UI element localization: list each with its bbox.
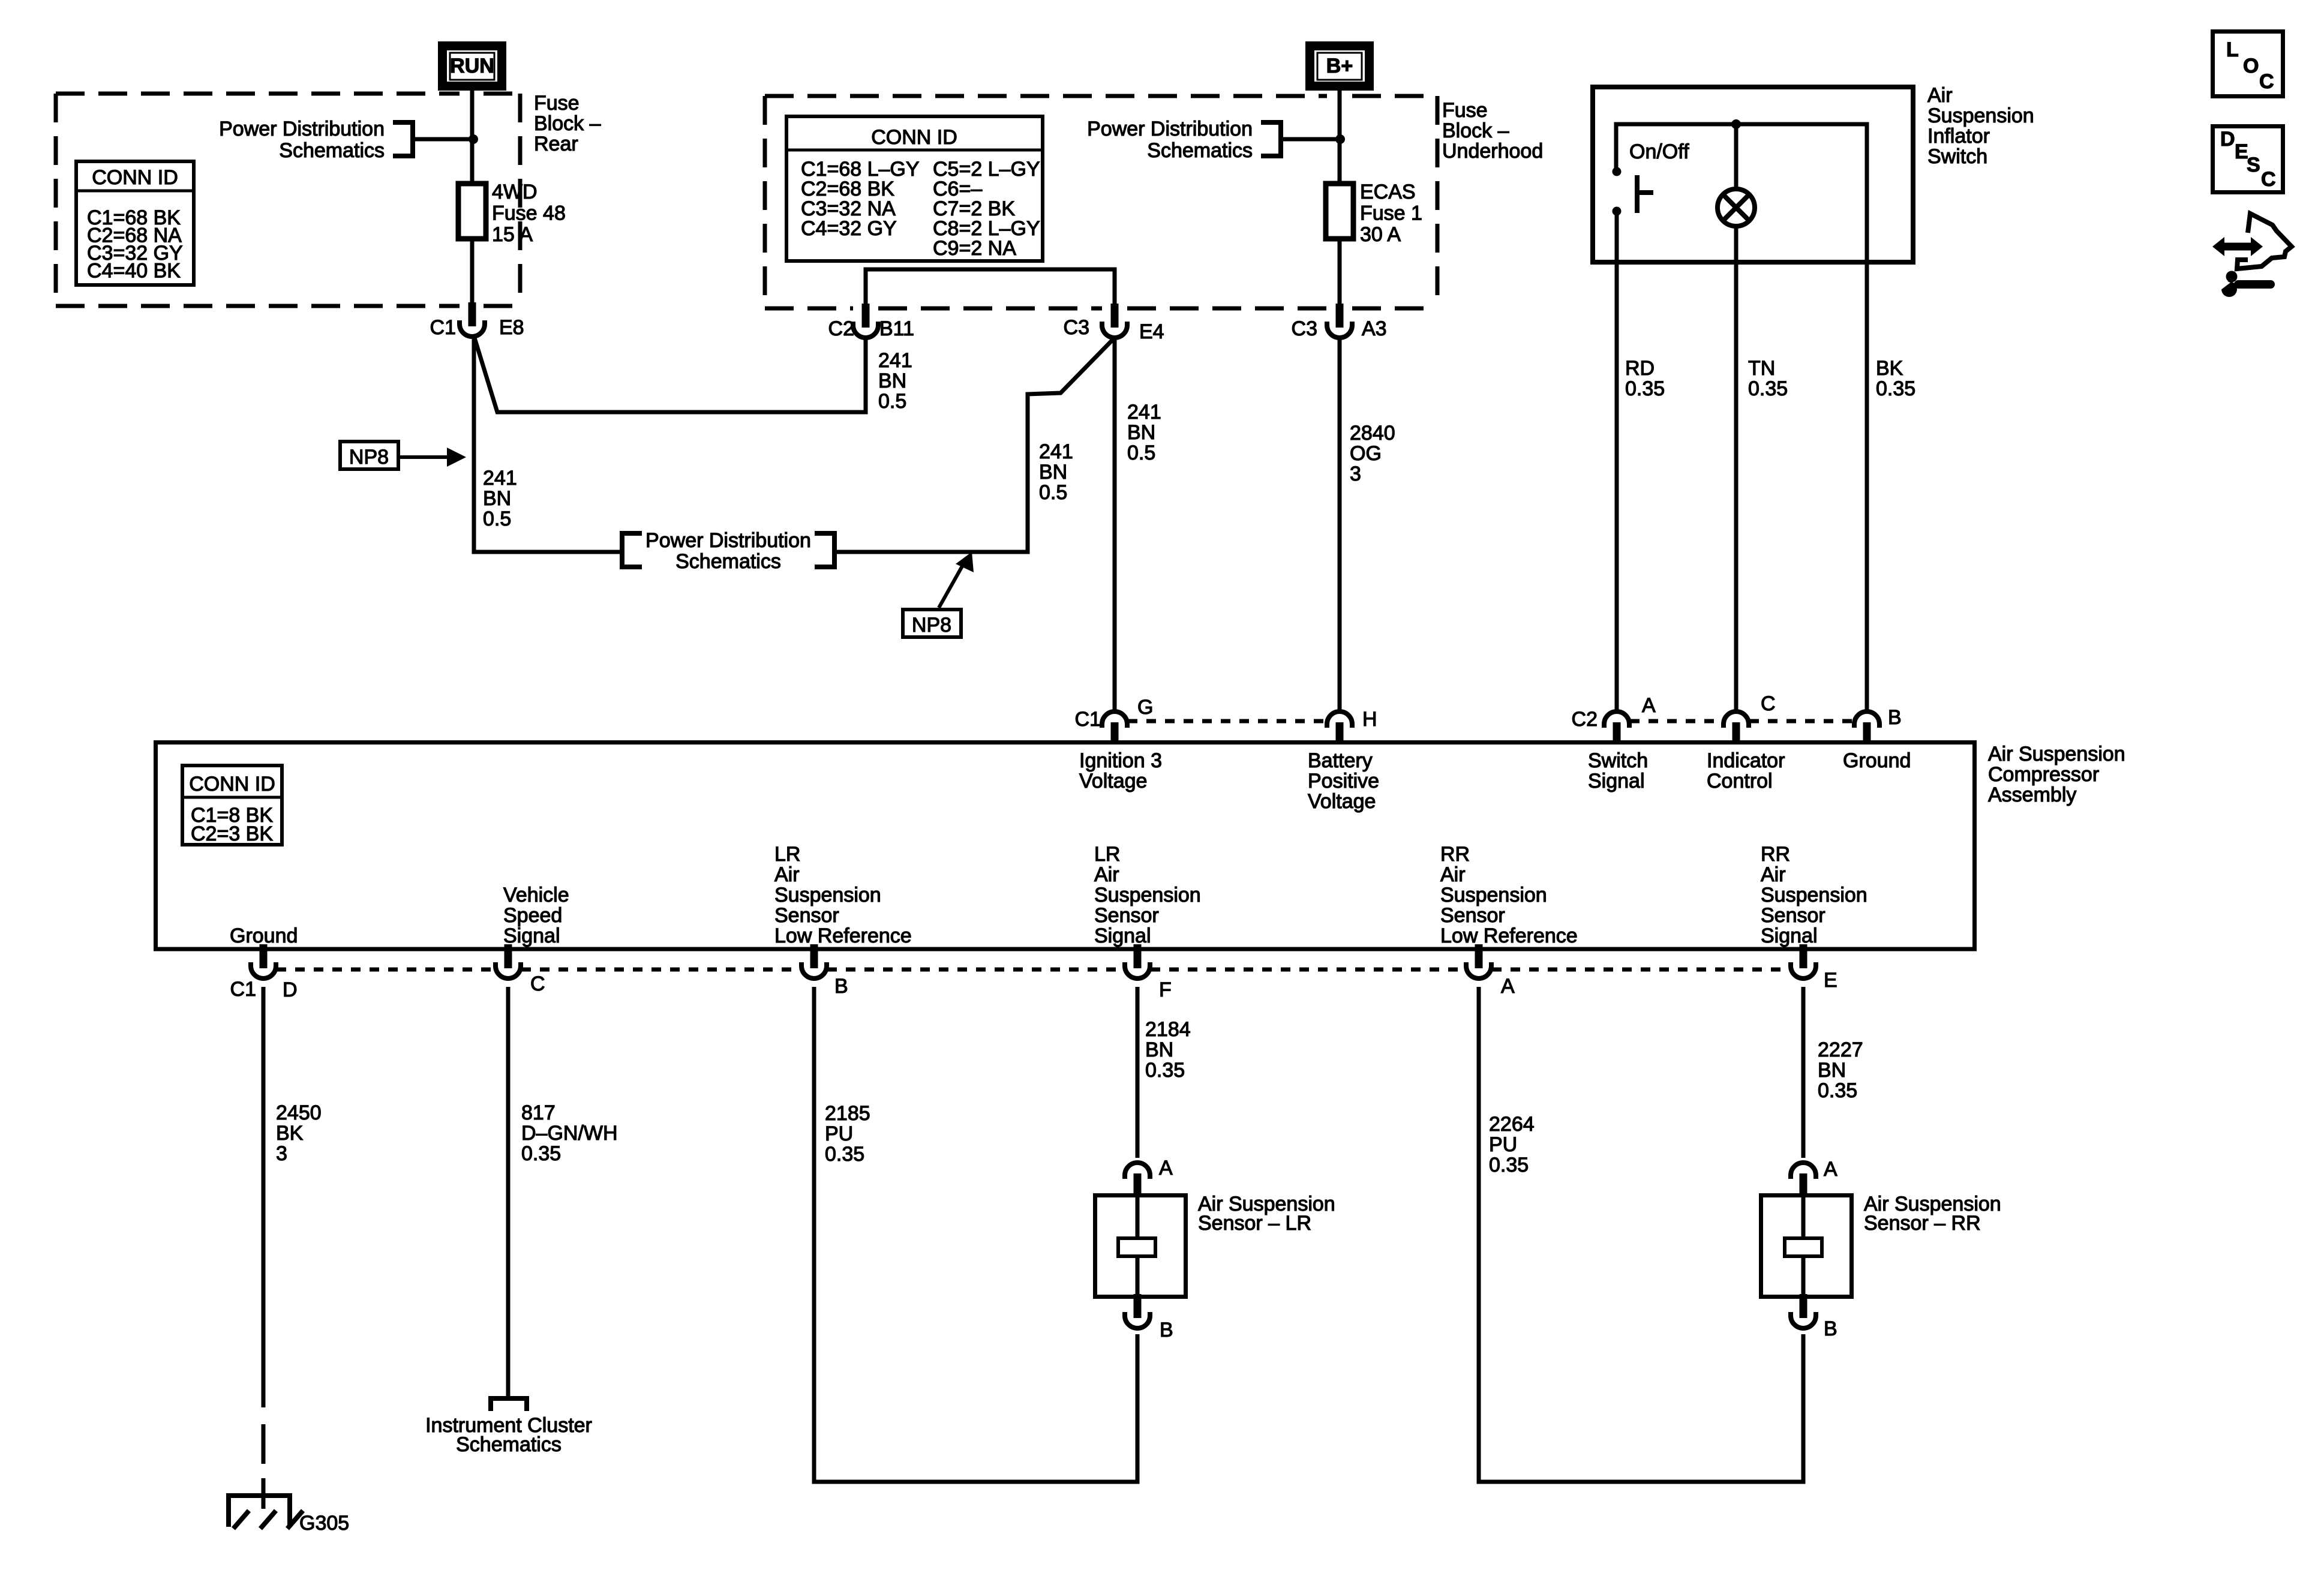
label D bbox=[283, 978, 298, 1001]
svg-text:B: B bbox=[1888, 706, 1902, 729]
svg-text:BN: BN bbox=[1818, 1059, 1846, 1082]
wire lamp to box bottom bbox=[1734, 124, 1739, 265]
svg-text:On/Off: On/Off bbox=[1629, 140, 1689, 163]
svg-text:0.35: 0.35 bbox=[1489, 1154, 1529, 1176]
label G305 bbox=[299, 1512, 349, 1535]
svg-text:H: H bbox=[1362, 708, 1377, 731]
svg-text:RR: RR bbox=[1440, 843, 1470, 866]
svg-text:Control: Control bbox=[1707, 770, 1773, 792]
wrench icon bbox=[2215, 271, 2275, 298]
switch lever bbox=[1637, 175, 1653, 213]
label 2450 BK 3 bbox=[276, 1101, 322, 1165]
svg-text:0.35: 0.35 bbox=[521, 1142, 561, 1165]
svg-text:B11: B11 bbox=[879, 317, 914, 340]
svg-text:Sensor – RR: Sensor – RR bbox=[1864, 1212, 1981, 1235]
label On/Off bbox=[1629, 140, 1689, 163]
svg-text:Voltage: Voltage bbox=[1308, 790, 1376, 813]
svg-text:ECAS: ECAS bbox=[1360, 181, 1416, 203]
svg-text:Air Suspension: Air Suspension bbox=[1988, 743, 2125, 766]
label 2185 PU 0.35 bbox=[825, 1102, 870, 1166]
label H bbox=[1362, 708, 1377, 731]
CONN ID table (compressor) bbox=[181, 766, 282, 845]
dashed line A to C bbox=[1630, 719, 1723, 724]
svg-text:C9=2 NA: C9=2 NA bbox=[933, 237, 1016, 260]
svg-text:C2: C2 bbox=[1572, 708, 1598, 731]
connector C2/B11 bbox=[853, 304, 878, 338]
label Air Suspension Sensor - LR bbox=[1198, 1193, 1335, 1235]
svg-text:NP8: NP8 bbox=[912, 614, 951, 637]
svg-text:Schematics: Schematics bbox=[279, 139, 385, 162]
label C1 (D) bbox=[230, 978, 256, 1001]
connector C1/E8 bbox=[460, 302, 485, 337]
svg-text:Low Reference: Low Reference bbox=[1440, 924, 1578, 947]
switch internal top wire bbox=[1616, 124, 1867, 265]
CONN ID table (fuse block rear) bbox=[74, 161, 196, 285]
label Indicator Control bbox=[1707, 749, 1785, 792]
svg-text:CONN ID: CONN ID bbox=[871, 126, 957, 149]
dashed line B to F bbox=[827, 968, 1124, 972]
off-page half box (instrument cluster) bbox=[491, 1398, 527, 1411]
label Vehicle Speed Signal bbox=[503, 884, 569, 947]
dashed box Fuse Block - Rear bbox=[56, 94, 520, 306]
svg-text:C: C bbox=[530, 972, 545, 995]
svg-text:BK: BK bbox=[1876, 357, 1903, 380]
svg-text:NP8: NP8 bbox=[349, 446, 389, 469]
label 4WD Fuse 48 15 A bbox=[492, 181, 566, 246]
svg-text:Air: Air bbox=[1927, 84, 1953, 107]
off-page bracket (power distribution, run) bbox=[393, 122, 413, 156]
svg-text:C3: C3 bbox=[1292, 317, 1317, 340]
svg-text:BN: BN bbox=[483, 487, 511, 510]
svg-text:Low Reference: Low Reference bbox=[774, 924, 912, 947]
power symbol RUN box bbox=[443, 46, 502, 86]
pointer outline icon bbox=[2237, 214, 2292, 269]
wire fuse 48 to connector E8 bbox=[470, 239, 475, 307]
svg-text:Suspension: Suspension bbox=[1927, 104, 2034, 127]
svg-text:30 A: 30 A bbox=[1360, 223, 1401, 246]
svg-text:0.35: 0.35 bbox=[1625, 377, 1665, 400]
svg-text:C3: C3 bbox=[1064, 316, 1089, 339]
label 241 BN 0.5 (diagonal) bbox=[1039, 440, 1073, 504]
svg-text:B: B bbox=[1160, 1319, 1173, 1341]
svg-text:C4=40 BK: C4=40 BK bbox=[87, 260, 181, 283]
off-page bracket pair (power distribution schematics, mid) bbox=[622, 533, 834, 567]
svg-text:C2: C2 bbox=[828, 317, 854, 340]
svg-text:0.35: 0.35 bbox=[825, 1143, 864, 1166]
label C2 (A) bbox=[1572, 708, 1598, 731]
svg-text:0.5: 0.5 bbox=[1039, 481, 1067, 504]
connector E (RR signal) bbox=[1791, 944, 1816, 978]
svg-text:PU: PU bbox=[1489, 1133, 1517, 1156]
jumper wire B11 to E4 inside fuse block bbox=[866, 269, 1115, 304]
CONN ID table (fuse block underhood) bbox=[785, 116, 1043, 261]
svg-text:Fuse 48: Fuse 48 bbox=[492, 202, 566, 225]
svg-text:Schematics: Schematics bbox=[675, 550, 781, 573]
svg-text:Schematics: Schematics bbox=[1147, 139, 1253, 162]
svg-text:C2=3 BK: C2=3 BK bbox=[191, 822, 273, 845]
junction dot (lamp feed) bbox=[1731, 119, 1741, 129]
svg-text:817: 817 bbox=[521, 1101, 556, 1124]
svg-text:LR: LR bbox=[1094, 843, 1120, 866]
label Battery Positive Voltage bbox=[1308, 749, 1379, 813]
svg-text:Voltage: Voltage bbox=[1079, 770, 1147, 792]
connector A (RR sensor) bbox=[1791, 1163, 1816, 1195]
connector C3/E4 bbox=[1102, 304, 1127, 338]
svg-text:Power Distribution: Power Distribution bbox=[645, 529, 811, 552]
label RR Air Suspension Sensor Signal bbox=[1761, 843, 1867, 947]
fuse 48 4WD 15A bbox=[458, 184, 486, 239]
svg-text:0.35: 0.35 bbox=[1818, 1079, 1857, 1102]
label A (RR low ref) bbox=[1501, 975, 1515, 998]
svg-text:Signal: Signal bbox=[1761, 924, 1818, 947]
svg-text:2450: 2450 bbox=[276, 1101, 322, 1124]
indicator lamp bbox=[1718, 189, 1755, 226]
label 2227 BN 0.35 bbox=[1818, 1038, 1863, 1102]
svg-text:Sensor: Sensor bbox=[1761, 904, 1825, 927]
svg-text:RR: RR bbox=[1761, 843, 1790, 866]
connector C1/G bbox=[1102, 712, 1127, 744]
double arrow icon bbox=[2212, 237, 2263, 256]
label B (ground) bbox=[1888, 706, 1902, 729]
svg-text:BN: BN bbox=[878, 370, 906, 392]
wire BK 0.35 to compressor B bbox=[1865, 265, 1869, 710]
svg-text:Vehicle: Vehicle bbox=[503, 884, 569, 906]
svg-text:Fuse: Fuse bbox=[1442, 99, 1488, 122]
svg-text:Underhood: Underhood bbox=[1442, 140, 1543, 163]
svg-text:Suspension: Suspension bbox=[774, 884, 881, 906]
svg-text:CONN ID: CONN ID bbox=[92, 166, 178, 189]
svg-text:E8: E8 bbox=[499, 316, 524, 339]
svg-text:C1: C1 bbox=[230, 978, 256, 1001]
dashed box Fuse Block - Underhood bbox=[765, 96, 1437, 308]
connector B (LR sensor) bbox=[1125, 1294, 1150, 1328]
label 241 BN 0.5 (ignition feed) bbox=[1127, 401, 1161, 464]
dashed line D to C bbox=[277, 968, 495, 972]
svg-text:0.35: 0.35 bbox=[1748, 377, 1788, 400]
svg-text:TN: TN bbox=[1748, 357, 1775, 380]
connector F (LR signal) bbox=[1125, 944, 1150, 978]
label A (RR sensor) bbox=[1824, 1158, 1837, 1181]
wire TN 0.35 to compressor C bbox=[1734, 265, 1739, 710]
connector C2/A bbox=[1604, 712, 1629, 744]
svg-text:LR: LR bbox=[774, 843, 800, 866]
label C3 (A3) bbox=[1292, 317, 1317, 340]
svg-text:241: 241 bbox=[1127, 401, 1161, 424]
label Air Suspension Inflator Switch bbox=[1927, 84, 2034, 168]
svg-text:0.35: 0.35 bbox=[1876, 377, 1915, 400]
label E bbox=[1824, 969, 1837, 992]
svg-text:D: D bbox=[2220, 128, 2235, 151]
svg-text:15 A: 15 A bbox=[492, 223, 533, 246]
svg-text:Signal: Signal bbox=[1588, 770, 1645, 792]
label Ground (top) bbox=[1843, 749, 1911, 772]
svg-text:Assembly: Assembly bbox=[1988, 784, 2076, 806]
svg-text:O: O bbox=[2243, 55, 2259, 77]
label C2 (B11) bbox=[828, 317, 854, 340]
NP8 option box 2 bbox=[903, 610, 961, 637]
sensor element LR bbox=[1118, 1194, 1155, 1299]
air suspension sensor LR box bbox=[1095, 1196, 1186, 1297]
svg-text:Fuse: Fuse bbox=[534, 92, 580, 115]
svg-text:E4: E4 bbox=[1139, 320, 1164, 343]
label B11 bbox=[879, 317, 914, 340]
svg-text:Signal: Signal bbox=[503, 924, 560, 947]
label Ground (bottom) bbox=[230, 924, 298, 947]
wire E8 to B11 (241 BN) bbox=[474, 336, 866, 412]
label E4 bbox=[1139, 320, 1164, 343]
wire C vehicle speed (817 D-GN/WH) bbox=[506, 987, 511, 1396]
wire F LR signal (2184 BN) bbox=[1136, 987, 1140, 1158]
fuse ECAS Fuse 1 30A bbox=[1326, 184, 1353, 239]
connector C3/A3 bbox=[1327, 304, 1352, 338]
svg-text:Suspension: Suspension bbox=[1761, 884, 1867, 906]
label Fuse Block - Underhood bbox=[1442, 99, 1543, 163]
svg-text:Schematics: Schematics bbox=[456, 1433, 562, 1456]
svg-text:Indicator: Indicator bbox=[1707, 749, 1785, 772]
svg-text:2185: 2185 bbox=[825, 1102, 870, 1125]
off-page bracket (power distribution, b+) bbox=[1261, 122, 1281, 156]
svg-text:Air: Air bbox=[1440, 863, 1466, 886]
NP8 arrow 1 bbox=[400, 448, 466, 467]
label Air Suspension Compressor Assembly bbox=[1988, 743, 2125, 806]
label BK 0.35 bbox=[1876, 357, 1915, 400]
connector A (LR sensor) bbox=[1125, 1163, 1150, 1195]
wire E RR signal (2227 BN) bbox=[1801, 987, 1806, 1158]
svg-text:L: L bbox=[2226, 38, 2239, 61]
ground symbol G305 bbox=[229, 1496, 303, 1529]
svg-text:Power Distribution: Power Distribution bbox=[219, 118, 385, 140]
connector B (RR sensor) bbox=[1791, 1294, 1816, 1328]
svg-text:Sensor: Sensor bbox=[1440, 904, 1505, 927]
svg-text:Fuse 1: Fuse 1 bbox=[1360, 202, 1422, 225]
label G bbox=[1137, 696, 1153, 719]
wire RD 0.35 to compressor A bbox=[1615, 265, 1619, 710]
power symbol B+ box bbox=[1310, 46, 1370, 86]
svg-text:2264: 2264 bbox=[1489, 1113, 1535, 1136]
svg-text:D: D bbox=[283, 978, 298, 1001]
svg-text:Switch: Switch bbox=[1927, 145, 1987, 168]
svg-text:A: A bbox=[1824, 1158, 1837, 1181]
label RD 0.35 bbox=[1625, 357, 1665, 400]
label ECAS Fuse 1 30 A bbox=[1360, 181, 1422, 246]
svg-text:Speed: Speed bbox=[503, 904, 562, 927]
air suspension sensor RR box bbox=[1761, 1196, 1852, 1297]
label A (switch signal) bbox=[1642, 694, 1656, 717]
svg-text:A3: A3 bbox=[1362, 317, 1387, 340]
svg-text:2840: 2840 bbox=[1350, 422, 1395, 445]
dashed line A to E bbox=[1492, 968, 1790, 972]
label Instrument Cluster Schematics bbox=[425, 1414, 592, 1456]
dashed line C to B (bottom) bbox=[521, 968, 801, 972]
svg-text:Sensor: Sensor bbox=[774, 904, 839, 927]
label C3 (E4) bbox=[1064, 316, 1089, 339]
svg-text:BK: BK bbox=[276, 1122, 304, 1145]
wire E4 to compressor G (241 BN) bbox=[1113, 338, 1117, 710]
svg-text:Air: Air bbox=[1094, 863, 1119, 886]
DESC icon box bbox=[2213, 127, 2283, 193]
NP8 arrow 2 bbox=[939, 552, 974, 608]
LOC icon box bbox=[2213, 32, 2283, 97]
svg-text:A: A bbox=[1642, 694, 1656, 717]
wire RUN to fuse 48 bbox=[470, 91, 475, 184]
svg-text:0.5: 0.5 bbox=[878, 390, 906, 413]
label F bbox=[1159, 978, 1172, 1001]
label Power Distribution Schematics (mid) bbox=[645, 529, 811, 573]
label B (RR sensor) bbox=[1824, 1317, 1837, 1340]
svg-text:PU: PU bbox=[825, 1122, 853, 1145]
svg-text:B: B bbox=[834, 975, 848, 998]
connector C1/D bbox=[251, 944, 276, 978]
wire A RR low reference (2264 PU) bbox=[1479, 987, 1803, 1482]
wire D ground (2450 BK) bbox=[262, 987, 266, 1407]
connector C (vehicle speed) bbox=[496, 944, 521, 978]
connector B (LR low ref) bbox=[801, 944, 827, 978]
svg-text:Block –: Block – bbox=[1442, 119, 1509, 142]
svg-text:0.5: 0.5 bbox=[1127, 442, 1155, 464]
label LR Air Suspension Sensor Low Reference bbox=[774, 843, 912, 947]
svg-text:S: S bbox=[2247, 154, 2260, 176]
NP8 option box 1 bbox=[340, 442, 398, 469]
wire bracket to E4 (241 BN) bbox=[836, 338, 1115, 552]
dashed line G to H bbox=[1128, 719, 1326, 724]
label C (indicator) bbox=[1761, 692, 1776, 715]
label B (LR low ref) bbox=[834, 975, 848, 998]
connector C (indicator) bbox=[1724, 712, 1749, 744]
svg-text:0.35: 0.35 bbox=[1145, 1059, 1185, 1082]
label E8 bbox=[499, 316, 524, 339]
label 2184 BN 0.35 bbox=[1145, 1018, 1191, 1082]
connector H bbox=[1327, 712, 1352, 744]
svg-text:Air: Air bbox=[1761, 863, 1786, 886]
junction dot on B+ feed bbox=[1335, 134, 1345, 144]
svg-text:Sensor – LR: Sensor – LR bbox=[1198, 1212, 1311, 1235]
dashed line C to B bbox=[1749, 719, 1852, 724]
label B (LR sensor) bbox=[1160, 1319, 1173, 1341]
svg-text:Signal: Signal bbox=[1094, 924, 1151, 947]
svg-text:Ignition 3: Ignition 3 bbox=[1079, 749, 1162, 772]
label Ignition 3 Voltage bbox=[1079, 749, 1162, 792]
label Power Distribution Schematics (run) bbox=[219, 118, 385, 162]
switch contact dots bbox=[1613, 167, 1622, 216]
label Fuse Block - Rear bbox=[534, 92, 601, 155]
wire switch to box bottom (RD) bbox=[1615, 211, 1619, 265]
label A (LR sensor) bbox=[1159, 1157, 1173, 1179]
label C1 (G) bbox=[1075, 708, 1101, 731]
label TN 0.35 bbox=[1748, 357, 1788, 400]
label A3 bbox=[1362, 317, 1387, 340]
svg-text:CONN ID: CONN ID bbox=[189, 773, 275, 795]
svg-text:Ground: Ground bbox=[230, 924, 298, 947]
label 241 BN 0.5 (below B11) bbox=[878, 349, 912, 413]
wire E8 down to power distribution bracket bbox=[474, 336, 620, 552]
junction dot on RUN feed bbox=[469, 134, 478, 144]
wire junction to bracket (b+) bbox=[1283, 137, 1337, 142]
svg-text:BN: BN bbox=[1145, 1038, 1173, 1061]
svg-text:Suspension: Suspension bbox=[1440, 884, 1547, 906]
sensor element RR bbox=[1785, 1194, 1822, 1299]
svg-text:Switch: Switch bbox=[1588, 749, 1648, 772]
connector A (RR low ref) bbox=[1466, 944, 1491, 978]
svg-text:Power Distribution: Power Distribution bbox=[1087, 118, 1253, 140]
svg-text:Air: Air bbox=[774, 863, 800, 886]
svg-text:Positive: Positive bbox=[1308, 770, 1379, 792]
svg-text:Inflator: Inflator bbox=[1927, 125, 1990, 148]
svg-text:Compressor: Compressor bbox=[1988, 763, 2099, 786]
svg-text:E: E bbox=[1824, 969, 1837, 992]
svg-text:C: C bbox=[1761, 692, 1776, 715]
label 241 BN 0.5 (run feed) bbox=[483, 467, 517, 530]
inflator switch box bbox=[1593, 87, 1913, 262]
svg-text:C1: C1 bbox=[430, 316, 456, 339]
svg-text:C: C bbox=[2259, 70, 2274, 93]
svg-text:RUN: RUN bbox=[450, 55, 494, 77]
label LR Air Suspension Sensor Signal bbox=[1094, 843, 1201, 947]
svg-text:OG: OG bbox=[1350, 442, 1382, 465]
label Power Distribution Schematics (b+) bbox=[1087, 118, 1253, 162]
svg-text:Rear: Rear bbox=[534, 133, 578, 155]
dashed line F to A (bottom) bbox=[1151, 968, 1466, 972]
svg-text:D–GN/WH: D–GN/WH bbox=[521, 1122, 618, 1145]
wire B LR low reference (2185 PU) bbox=[814, 987, 1137, 1482]
svg-text:241: 241 bbox=[878, 349, 912, 372]
air suspension compressor assembly box bbox=[156, 743, 1975, 950]
label C (vehicle speed) bbox=[530, 972, 545, 995]
connector B (ground) bbox=[1854, 712, 1879, 744]
label Switch Signal bbox=[1588, 749, 1648, 792]
svg-text:BN: BN bbox=[1127, 421, 1155, 444]
svg-text:A: A bbox=[1501, 975, 1515, 998]
svg-text:Suspension: Suspension bbox=[1094, 884, 1201, 906]
svg-text:B: B bbox=[1824, 1317, 1837, 1340]
svg-text:2227: 2227 bbox=[1818, 1038, 1863, 1061]
svg-text:C4=32 GY: C4=32 GY bbox=[801, 217, 897, 240]
svg-text:B+: B+ bbox=[1326, 55, 1353, 77]
svg-text:3: 3 bbox=[276, 1142, 287, 1165]
svg-text:Block –: Block – bbox=[534, 112, 601, 135]
wire A3 to compressor H (2840 OG) bbox=[1338, 339, 1342, 710]
svg-text:241: 241 bbox=[1039, 440, 1073, 463]
svg-text:A: A bbox=[1159, 1157, 1173, 1179]
svg-text:BN: BN bbox=[1039, 461, 1067, 484]
label C1 (E8) bbox=[430, 316, 456, 339]
svg-text:Sensor: Sensor bbox=[1094, 904, 1159, 927]
wire B+ to ECAS fuse bbox=[1338, 91, 1342, 184]
svg-text:G305: G305 bbox=[299, 1512, 349, 1535]
svg-text:2184: 2184 bbox=[1145, 1018, 1191, 1041]
svg-text:Ground: Ground bbox=[1843, 749, 1911, 772]
svg-text:Battery: Battery bbox=[1308, 749, 1373, 772]
svg-text:F: F bbox=[1159, 978, 1172, 1001]
svg-text:241: 241 bbox=[483, 467, 517, 490]
label RR Air Suspension Sensor Low Reference bbox=[1440, 843, 1578, 947]
svg-text:C1: C1 bbox=[1075, 708, 1101, 731]
label 817 D-GN/WH 0.35 bbox=[521, 1101, 618, 1165]
svg-text:C: C bbox=[2261, 168, 2276, 191]
label 2840 OG 3 bbox=[1350, 422, 1395, 485]
wire junction to bracket bbox=[415, 137, 470, 142]
svg-text:0.5: 0.5 bbox=[483, 508, 511, 530]
svg-text:3: 3 bbox=[1350, 463, 1361, 485]
svg-text:4WD: 4WD bbox=[492, 181, 538, 203]
svg-text:RD: RD bbox=[1625, 357, 1655, 380]
wire ECAS fuse to connector A3 bbox=[1338, 239, 1342, 310]
label Air Suspension Sensor - RR bbox=[1864, 1193, 2001, 1235]
svg-text:G: G bbox=[1137, 696, 1153, 719]
label 2264 PU 0.35 bbox=[1489, 1113, 1535, 1176]
dashed wire to G305 bbox=[262, 1424, 266, 1509]
